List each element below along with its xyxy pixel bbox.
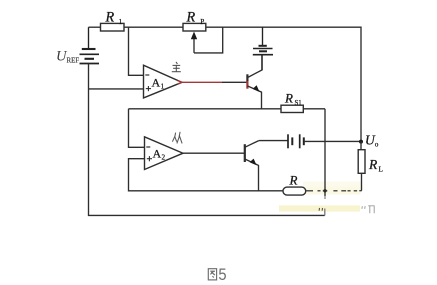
node junction R output [323,189,326,192]
svg-text:L: L [379,165,384,174]
wire battery B3 to Uo [304,140,361,142]
svg-text:REF: REF [67,58,80,65]
wire hook faint upper [324,196,326,199]
svg-text:A: A [153,147,162,161]
resistor R pill [283,187,306,195]
wire A2 inverting branch [129,109,145,148]
watermark dark ticks left [319,208,322,211]
wire R1 to RP [124,26,183,28]
resistor RS1 [281,105,303,112]
wire left rail [88,64,90,216]
svg-text:R: R [284,91,293,106]
label master zhu [172,62,181,72]
wire R to RL dashes [306,190,362,192]
node Uo [359,140,363,144]
wire top rail [89,26,101,28]
svg-text:R: R [368,157,378,172]
battery UREF [80,27,100,63]
wire Q2 collector to battery [259,140,288,142]
svg-text:R: R [289,172,298,187]
wire feedback top (emitter bus) [129,108,282,110]
wire RS1 to right vertical [303,108,325,110]
wiper arrow of RP [191,32,197,53]
svg-text:S1: S1 [295,100,302,107]
transistor Q1 [247,55,262,109]
potentiometer RP [183,23,206,31]
transistor Q2 [245,141,259,191]
watermark highlight band upper [303,182,361,188]
wire A1 output red segment [181,81,222,83]
op-amp A2 [145,137,184,170]
wire RL leads [360,142,362,150]
battery B3 horizontal [288,134,304,148]
wire bottom long [88,214,325,216]
svg-text:1: 1 [119,17,123,26]
resistor R1 [101,23,125,31]
watermark highlight band mid [306,186,361,194]
watermark marks right of RL [362,206,374,213]
caption figure tu [208,269,216,280]
wire A1 output dark segment [222,81,247,83]
svg-text:R: R [186,9,196,25]
svg-text:5: 5 [218,265,226,284]
resistor RL [358,150,365,174]
wire RP to right corner [206,26,361,28]
wire A2 plus loop [129,159,284,191]
op-amp A1 [144,65,183,98]
label slave cong [172,132,182,144]
svg-text:1: 1 [161,83,165,91]
svg-text:A: A [152,76,161,90]
svg-text:R: R [105,9,115,25]
svg-text:P: P [200,17,204,26]
battery B2 top right [253,27,273,70]
wire A2 output [183,152,244,154]
wire bottom hook up [324,209,326,216]
red apex tip of A1 [178,81,183,85]
svg-text:2: 2 [162,154,166,162]
wire A1 plus input [89,88,144,90]
wire wiper return [194,27,223,53]
svg-text:o: o [375,140,379,149]
watermark highlight band lower [279,205,360,211]
wire right mid vertical [324,109,326,196]
wire right rail down to Uo [360,27,362,142]
node junction to A1 inverting input [129,27,144,75]
